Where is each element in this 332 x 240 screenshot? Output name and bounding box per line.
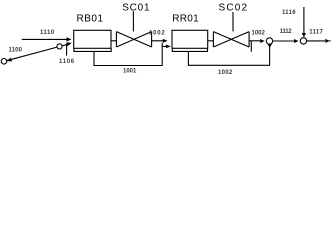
svg-text:1106: 1106 (59, 59, 75, 65)
svg-text:1117: 1117 (309, 30, 323, 36)
svg-text:RR01: RR01 (172, 14, 199, 25)
svg-text:1002: 1002 (252, 30, 266, 36)
svg-text:1116: 1116 (282, 10, 296, 16)
svg-text:SC02: SC02 (219, 2, 249, 13)
svg-text:RB01: RB01 (77, 14, 104, 25)
svg-text:1110: 1110 (40, 30, 55, 36)
svg-text:1002: 1002 (149, 31, 166, 37)
svg-text:1100: 1100 (9, 47, 23, 53)
svg-text:1001: 1001 (123, 69, 137, 75)
svg-text:1002: 1002 (218, 70, 233, 76)
svg-text:SC01: SC01 (122, 2, 150, 13)
svg-text:1112: 1112 (280, 29, 292, 35)
